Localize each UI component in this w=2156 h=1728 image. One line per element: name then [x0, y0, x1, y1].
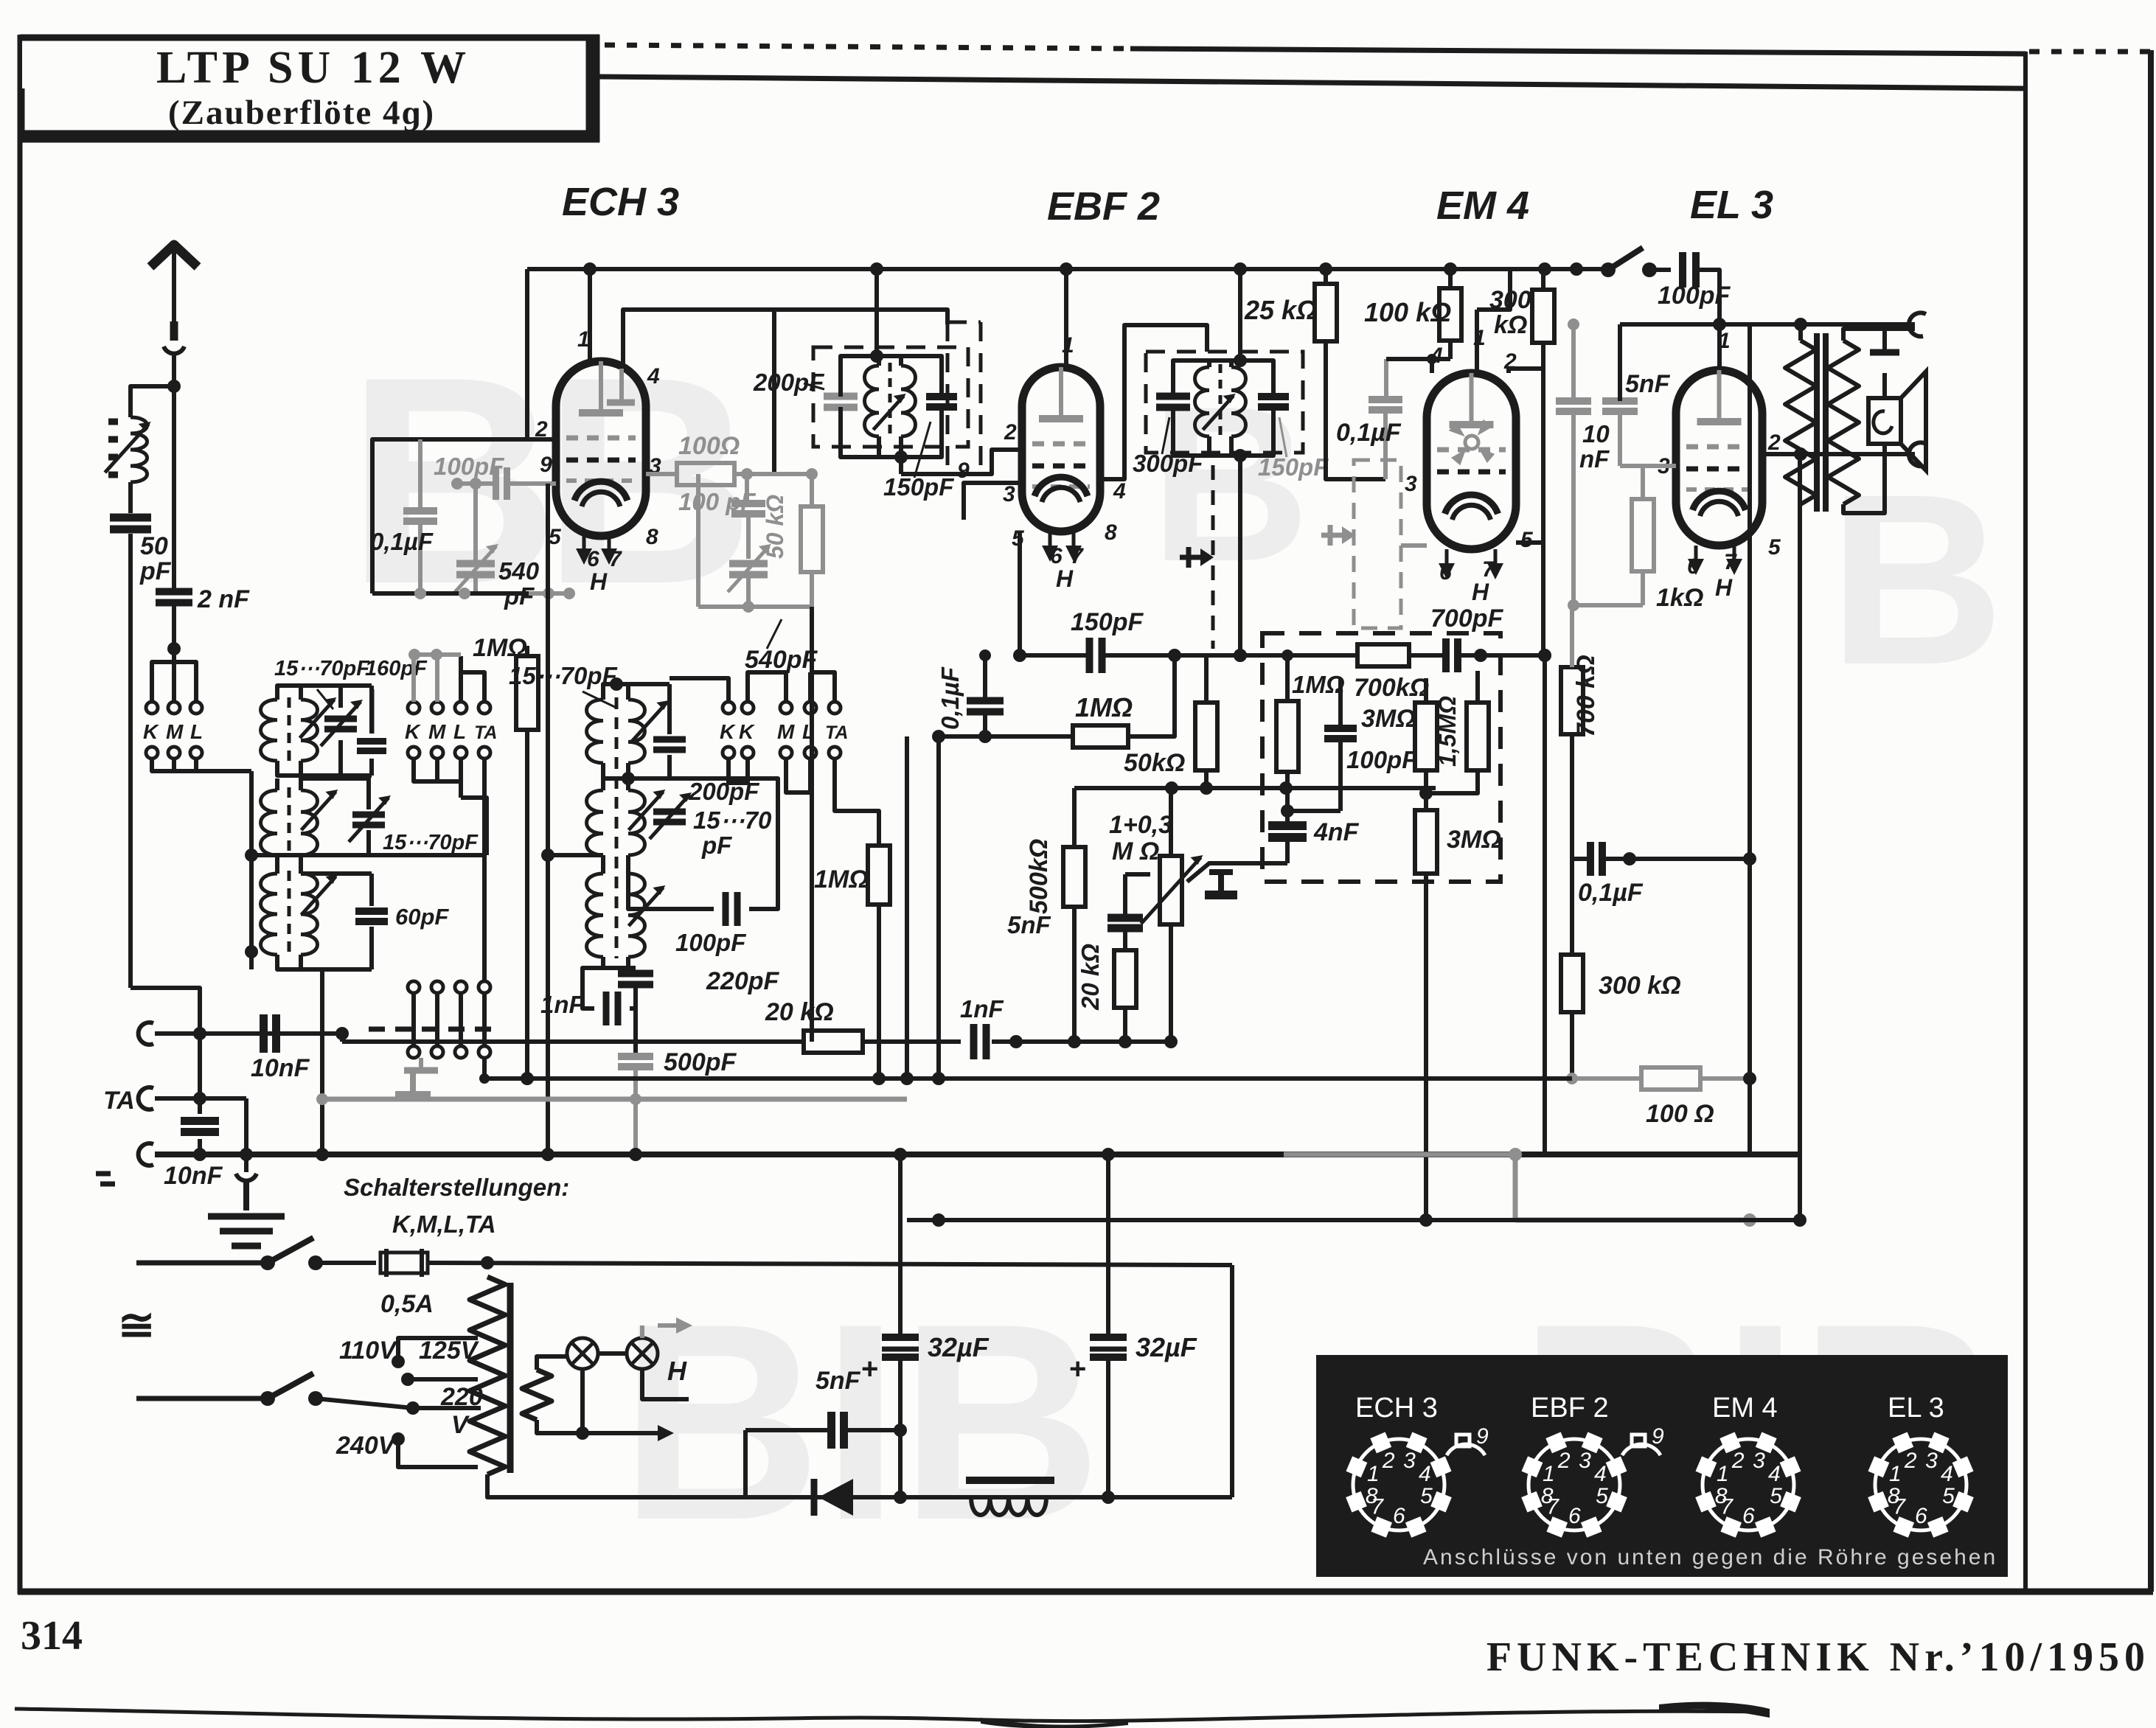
wire 1.5M — [1477, 655, 1478, 703]
wire 32uF no1 — [898, 1154, 903, 1337]
svg-text:15⋯70pF: 15⋯70pF — [383, 831, 479, 854]
power wire y2031 — [745, 1495, 1232, 1499]
svg-text:8: 8 — [1105, 520, 1117, 545]
svg-text:0,1µF: 0,1µF — [936, 666, 964, 730]
svg-text:M: M — [777, 720, 795, 743]
page frame bottom border — [18, 1589, 2153, 1595]
svg-text:+: + — [1069, 1353, 1086, 1385]
antenna coil 1 secondary — [301, 700, 318, 761]
svg-text:TA: TA — [103, 1087, 135, 1115]
svg-text:TA: TA — [825, 722, 848, 743]
svg-text:EM 4: EM 4 — [1436, 184, 1529, 228]
tube EBF2 envelope — [1022, 367, 1100, 532]
svg-text:110V: 110V — [339, 1337, 398, 1365]
resistor 25k — [1315, 284, 1337, 341]
wire IF2 secondary down — [1238, 456, 1242, 655]
oscillator coil 1 primary — [587, 700, 604, 763]
wire ECH3 pin4 loop — [623, 310, 947, 367]
capacitor 160pF — [357, 738, 386, 745]
wire cathode 1k gray rail — [1573, 603, 1643, 607]
svg-text:V: V — [451, 1411, 470, 1439]
svg-text:15⋯70pF: 15⋯70pF — [274, 657, 370, 680]
IF1 primary coil — [865, 366, 880, 436]
wire EL3 pin5 down — [1748, 324, 1752, 859]
gray dashed shield EM4 grid — [1354, 460, 1401, 628]
wire EL3 pin3 — [1620, 464, 1676, 468]
second top border line — [599, 77, 2026, 88]
wire EM4 pin5 long drop — [1543, 655, 1547, 1154]
wire anode supply top bus — [527, 267, 1608, 271]
svg-text:0,1µF: 0,1µF — [370, 528, 434, 555]
tube EM4 heater arrows — [1445, 549, 1449, 569]
capacitor 500pF — [618, 1053, 653, 1060]
wire bus to IF1 — [874, 269, 879, 356]
wire EM4 grid gray — [1401, 543, 1427, 548]
capacitor 0.1uF ECH3 — [403, 507, 437, 515]
wire 32uF no2 — [1106, 1154, 1110, 1337]
wire coil3 rails — [275, 855, 279, 874]
wire 150pF line — [1020, 653, 1089, 658]
wire coil1 bottom rail — [277, 761, 372, 776]
resistor 100k EM4 — [1439, 288, 1461, 341]
svg-text:pF: pF — [139, 557, 172, 585]
svg-text:1: 1 — [1717, 1462, 1729, 1486]
wire group1 bottom rail — [152, 759, 251, 771]
gray heater arrow — [658, 1323, 682, 1328]
svg-text:H: H — [590, 568, 608, 595]
trimmer 15-70pF band M — [352, 812, 385, 818]
tube ECH3 anode — [579, 409, 623, 417]
wire coil2 rails — [275, 778, 279, 790]
wire EBF2 pin5 down — [1018, 532, 1022, 655]
coil 1 core — [288, 697, 291, 764]
wire 1M TA down — [877, 905, 881, 1079]
resistor 1.5M EM4 box — [1467, 703, 1489, 770]
svg-text:5: 5 — [1770, 1484, 1782, 1508]
capacitor 300pF IF2 — [1156, 393, 1190, 400]
tube EBF2 anode — [1039, 415, 1083, 422]
svg-text:6: 6 — [1915, 1504, 1927, 1528]
output terminal C upper — [1909, 313, 1926, 336]
wire 25k down — [1326, 341, 1385, 479]
svg-text:1nF: 1nF — [960, 995, 1004, 1022]
svg-text:1: 1 — [1889, 1462, 1902, 1486]
capacitor 0.1uF EBF2 — [967, 697, 1004, 705]
wire B2 drop — [1230, 1265, 1234, 1497]
antenna symbol — [150, 245, 198, 267]
bottom scan edge line — [15, 1709, 1770, 1721]
wire branch to antenna coil — [131, 386, 174, 417]
dashed gang IF2 to ground — [1211, 465, 1215, 649]
resistor 1M EM4 box — [1276, 701, 1298, 772]
wire wafer TA to heater bus — [482, 1058, 487, 1079]
capacitor 4nF EM4 — [1268, 821, 1307, 830]
svg-text:150pF: 150pF — [1071, 608, 1144, 636]
svg-text:5: 5 — [549, 525, 562, 549]
capacitor 5nF AVC — [1107, 914, 1143, 922]
wire secondary bottom — [1843, 478, 1885, 513]
svg-text:(Zauberflöte 4ɡ): (Zauberflöte 4ɡ) — [168, 94, 435, 132]
svg-text:1MΩ: 1MΩ — [1292, 671, 1345, 698]
svg-text:K: K — [739, 720, 755, 743]
wire speaker bottom — [1882, 444, 1887, 478]
svg-text:3: 3 — [1579, 1449, 1591, 1473]
svg-text:1: 1 — [1367, 1462, 1380, 1486]
supply bus B2 — [907, 1218, 1800, 1222]
fuse 0.5A — [380, 1253, 428, 1273]
tube EL3 anode — [1697, 418, 1742, 425]
ground bus B1 — [155, 1152, 1800, 1157]
page frame left border — [18, 35, 23, 1594]
svg-text:L: L — [190, 720, 203, 743]
EM4 divider dashed box — [1262, 633, 1500, 882]
svg-text:100 kΩ: 100 kΩ — [1364, 297, 1451, 327]
wire EBF2 pin9 — [964, 483, 1022, 520]
svg-text:500pF: 500pF — [664, 1048, 737, 1076]
svg-text:100Ω: 100Ω — [678, 432, 740, 460]
capacitor 700pF EM4 — [1442, 638, 1450, 672]
wire rail y1069 — [1074, 786, 1436, 790]
wire group3 bottoms — [728, 759, 748, 783]
svg-text:2: 2 — [1004, 420, 1017, 445]
svg-text:4: 4 — [647, 364, 660, 389]
capacitor 50pF — [110, 514, 151, 522]
tube EM4 envelope — [1427, 373, 1516, 549]
resistor 100 ohm heater — [1641, 1067, 1700, 1090]
IF2 core — [1219, 364, 1223, 439]
IF2 primary coil — [1195, 367, 1210, 436]
resistor 3M EM4 box lower — [1415, 810, 1437, 874]
oscillator coil 3 — [587, 874, 604, 957]
tube ECH3 envelope — [556, 361, 646, 536]
wire HT down right — [1798, 454, 1802, 1220]
wire 300k down — [1570, 1012, 1574, 1079]
socket diagram ECH 3 — [1353, 1439, 1444, 1530]
wire input to osc — [282, 1033, 342, 1034]
capacitor 10nF TA — [181, 1117, 219, 1125]
svg-text:50kΩ: 50kΩ — [1124, 749, 1185, 777]
gray rail under ECH3 — [372, 591, 529, 596]
switch contacts lower wafer — [408, 981, 420, 993]
svg-text:Anschlüsse von unten gegen die: Anschlüsse von unten gegen die Röhre ges… — [1423, 1545, 1997, 1570]
svg-text:220pF: 220pF — [706, 967, 779, 995]
mains switch lower — [136, 1396, 268, 1401]
wire IF1 bottom — [841, 407, 942, 457]
wire IF2 top — [1173, 360, 1273, 397]
svg-text:5nF: 5nF — [1625, 370, 1671, 398]
wire EL3 pin2 to output — [1762, 452, 1915, 456]
svg-text:100pF: 100pF — [1346, 746, 1417, 773]
svg-text:4: 4 — [1941, 1462, 1953, 1486]
resistor 1M EBF2 — [1073, 725, 1128, 748]
svg-text:3: 3 — [1003, 482, 1015, 506]
potentiometer 1+0.3M — [1160, 856, 1182, 924]
wire 100k down to EM4 — [1448, 341, 1453, 359]
wire EBF2 pin4 loop — [1100, 325, 1207, 479]
capacitor 100pF ECH3 grid — [493, 467, 499, 500]
socket ECH3 pin9 cap — [1456, 1435, 1470, 1446]
svg-text:EM 4: EM 4 — [1712, 1393, 1778, 1424]
antenna coil 2 secondary — [301, 790, 318, 855]
switch mains on-off at EL3 — [1601, 262, 1616, 277]
svg-text:L: L — [453, 720, 466, 743]
capacitor 2nF — [156, 588, 192, 596]
svg-text:50: 50 — [140, 532, 168, 560]
svg-text:EL 3: EL 3 — [1888, 1393, 1944, 1424]
variable input coil — [131, 417, 147, 482]
socket diagram EBF 2 — [1529, 1439, 1620, 1530]
svg-text:160pF: 160pF — [365, 657, 428, 680]
svg-text:700pF: 700pF — [1430, 605, 1503, 633]
wire speaker top — [1882, 373, 1887, 398]
ground chassis lower wafer — [419, 1058, 423, 1070]
svg-text:K: K — [720, 720, 736, 743]
svg-text:150pF: 150pF — [883, 473, 954, 501]
IF1 core — [889, 363, 892, 439]
svg-text:ECH 3: ECH 3 — [1355, 1393, 1438, 1424]
output transformer core — [1814, 333, 1820, 512]
svg-text:0,1µF: 0,1µF — [1578, 879, 1644, 907]
phono marks — [96, 1171, 111, 1177]
socket diagram EL 3 — [1875, 1439, 1967, 1530]
wire mixer rail down — [810, 607, 814, 1042]
ground chassis EM4 box — [1220, 863, 1253, 864]
svg-text:pF: pF — [504, 582, 535, 610]
wire 0.1uF — [1572, 857, 1590, 861]
svg-text:5nF: 5nF — [1007, 911, 1051, 938]
wire 5nF — [745, 1428, 832, 1432]
wire lamps — [558, 1354, 567, 1359]
capacitor 10nF input — [260, 1014, 268, 1053]
wire group1 to coil2 — [249, 771, 254, 855]
wire heater gray — [1572, 1076, 1641, 1081]
capacitor 150pF IF1 — [926, 393, 957, 400]
dial lamp 1 — [567, 1338, 598, 1369]
svg-text:H: H — [1472, 579, 1489, 605]
tube EM4 anode — [1450, 421, 1494, 428]
trimmer 15-70pF band K — [324, 716, 357, 722]
wire osc coil2 bottom — [601, 855, 605, 868]
transformer taps — [392, 1355, 405, 1368]
svg-text:K,M,L,TA: K,M,L,TA — [392, 1210, 496, 1238]
antenna coil 3 primary — [261, 874, 278, 955]
tube EM4 grids — [1437, 447, 1506, 453]
svg-text:EBF 2: EBF 2 — [1047, 184, 1160, 229]
wire grid line y440 — [1620, 322, 1915, 327]
svg-text:4nF: 4nF — [1313, 818, 1360, 846]
page frame inner right border — [2023, 52, 2028, 1592]
svg-text:300 kΩ: 300 kΩ — [1599, 972, 1681, 1000]
resistor 20k AVC — [1114, 950, 1136, 1008]
svg-text:8: 8 — [646, 525, 658, 549]
tube EL3 heater arrows — [1694, 546, 1698, 565]
svg-text:LTP SU 12 W: LTP SU 12 W — [156, 43, 470, 93]
svg-text:M: M — [428, 720, 446, 743]
oscillator coil 1 secondary — [628, 700, 645, 763]
wire 5nF branch — [1123, 874, 1127, 918]
wire EM4 box mid rail — [1338, 739, 1343, 811]
wire EM4 pin5 down — [1516, 540, 1543, 545]
wire 50pF down left rail — [128, 534, 133, 988]
oscillator core — [615, 697, 619, 958]
wire secondary top — [1843, 329, 1915, 341]
wire 100pF to EL3 grid — [1696, 270, 1719, 324]
gray rail group2 feed — [411, 652, 461, 657]
wire 1nF branch — [583, 968, 636, 1008]
svg-text:2 nF: 2 nF — [197, 585, 250, 613]
wire ECH3 pin3 — [646, 472, 677, 476]
resistor 1k EL3 — [1632, 499, 1654, 571]
svg-text:4: 4 — [1113, 479, 1126, 504]
svg-text:H: H — [667, 1356, 687, 1386]
svg-text:15⋯70: 15⋯70 — [693, 806, 772, 834]
svg-text:3MΩ: 3MΩ — [1447, 826, 1501, 854]
input terminal antenna — [139, 1022, 153, 1045]
tube ECH3 cathode — [574, 481, 627, 501]
svg-text:700kΩ: 700kΩ — [1354, 674, 1429, 702]
variable capacitor 540pF mixer — [729, 560, 768, 568]
wire fuse to B1 up — [485, 1261, 490, 1265]
wire 300k down — [1541, 343, 1545, 655]
wire EBF2 pins down rails — [905, 736, 909, 1078]
wire transformer bottom — [487, 1474, 745, 1497]
antenna coil 3 secondary — [301, 874, 318, 955]
svg-text:5: 5 — [1596, 1484, 1608, 1508]
svg-text:5: 5 — [1942, 1484, 1955, 1508]
heater arrow lower — [583, 1431, 664, 1435]
resistor 300k EM4 — [1532, 290, 1554, 343]
wire 1M EM4 box — [1285, 655, 1290, 701]
svg-text:3MΩ: 3MΩ — [1361, 705, 1416, 733]
wire EBF2 pin1 — [1064, 269, 1068, 367]
svg-text:240V: 240V — [335, 1432, 397, 1460]
title box frame — [22, 37, 594, 137]
resistor 3M EM4 box — [1415, 703, 1437, 770]
svg-text:20 kΩ: 20 kΩ — [765, 998, 834, 1026]
svg-text:2: 2 — [1731, 1449, 1745, 1473]
svg-text:2: 2 — [1382, 1449, 1395, 1473]
svg-text:3: 3 — [1405, 472, 1417, 496]
resistor 700k EM4 box — [1357, 644, 1409, 666]
capacitor 220pF — [618, 970, 653, 978]
socket EBF2 pin9 cap — [1632, 1435, 1645, 1446]
svg-text:M: M — [166, 720, 184, 743]
svg-text:ECH 3: ECH 3 — [562, 180, 679, 224]
resistor 20k detector — [804, 1031, 863, 1053]
wire 1378 up — [1015, 788, 1017, 1042]
wire pot — [1169, 788, 1173, 856]
svg-text:7: 7 — [1720, 1495, 1734, 1519]
wire TA right branch — [244, 1098, 248, 1154]
wire 1M line — [939, 734, 1073, 739]
IF1 shield inner dashed — [946, 322, 950, 465]
wire ECH3 loop vertical — [525, 269, 529, 439]
tube EL3 grids — [1686, 445, 1752, 450]
svg-text:7: 7 — [1371, 1495, 1384, 1519]
tube socket chart black box — [1316, 1355, 2008, 1577]
dial lamp 2 — [627, 1338, 658, 1369]
svg-text:3: 3 — [1403, 1449, 1416, 1473]
heater bus B3 — [482, 1076, 1572, 1081]
antenna coil 1 primary — [261, 700, 278, 761]
antenna plug connector — [170, 321, 178, 341]
svg-text:314: 314 — [21, 1613, 83, 1659]
capacitor 200pF osc top — [653, 736, 686, 743]
wire EL3 pin1 — [1717, 324, 1722, 370]
wire antenna stem down to 2nF — [172, 386, 176, 590]
svg-text:Schalterstellungen:: Schalterstellungen: — [344, 1174, 569, 1201]
svg-text:32µF: 32µF — [1136, 1332, 1197, 1362]
tube EM4 cathode — [1445, 495, 1498, 514]
svg-text:7: 7 — [1546, 1495, 1559, 1519]
speaker magnet tap — [1882, 329, 1887, 352]
IF2 secondary coil — [1231, 367, 1246, 436]
oscillator coil 2 — [587, 790, 604, 855]
svg-text:2: 2 — [1557, 1449, 1571, 1473]
filter choke — [966, 1477, 1054, 1484]
svg-text:EL 3: EL 3 — [1690, 183, 1773, 227]
svg-text:4: 4 — [1768, 1462, 1781, 1486]
wire group3 tops — [670, 678, 728, 702]
svg-text:FUNK-TECHNIK Nr.’10/1950: FUNK-TECHNIK Nr.’10/1950 — [1486, 1634, 2150, 1680]
gray heater jog to B2 — [1513, 1154, 1518, 1220]
resistor 1M ohm ECH3 — [516, 656, 538, 730]
wire switch2 to taps — [316, 1398, 481, 1408]
rectifier diode — [811, 1479, 818, 1516]
resistor 500k — [1063, 847, 1085, 907]
svg-text:540: 540 — [498, 557, 540, 585]
svg-text:1,5MΩ: 1,5MΩ — [1434, 696, 1461, 767]
svg-text:1kΩ: 1kΩ — [1656, 584, 1703, 612]
ground symbol main — [244, 1154, 248, 1172]
wire group2 bottoms — [414, 759, 461, 781]
gray mixer rail — [698, 605, 812, 609]
tube EBF2 grids — [1032, 442, 1090, 447]
svg-text:H: H — [1056, 565, 1074, 592]
wire IF1 to EBF2 grid — [899, 457, 903, 474]
svg-text:6: 6 — [1742, 1504, 1755, 1528]
svg-text:125V: 125V — [419, 1337, 480, 1365]
svg-text:0,1µF: 0,1µF — [1336, 419, 1402, 447]
svg-text:1: 1 — [1543, 1462, 1555, 1486]
switch contacts K M L antenna — [146, 702, 158, 714]
wire ECH3 pin1 to top bus — [588, 269, 592, 361]
svg-text:5: 5 — [1420, 1484, 1433, 1508]
svg-text:9: 9 — [540, 453, 552, 477]
svg-text:500kΩ: 500kΩ — [1025, 839, 1053, 914]
svg-text:1+0,3: 1+0,3 — [1109, 811, 1172, 839]
wire 4nF to pot wiper — [1286, 861, 1287, 865]
svg-text:2: 2 — [1767, 431, 1781, 455]
mains switch upper — [136, 1261, 268, 1266]
capacitor 100pF EM4 box — [1324, 725, 1357, 732]
svg-text:pF: pF — [701, 832, 732, 859]
wire right vert to 300k — [1570, 859, 1574, 955]
speaker — [1868, 398, 1901, 444]
coil 3 core — [288, 871, 291, 958]
svg-text:5nF: 5nF — [816, 1367, 861, 1395]
svg-text:B: B — [1829, 443, 2004, 715]
svg-text:7: 7 — [1893, 1495, 1906, 1519]
tube ECH3 grids — [566, 436, 636, 441]
capacitor 60pF — [355, 907, 388, 915]
svg-text:3: 3 — [1925, 1449, 1938, 1473]
svg-text:EBF 2: EBF 2 — [1531, 1393, 1609, 1424]
wire EM4 box top — [1326, 653, 1357, 658]
svg-text:5: 5 — [1520, 528, 1534, 552]
svg-text:10nF: 10nF — [251, 1054, 310, 1082]
trimmer 15-70pF osc — [653, 809, 686, 815]
